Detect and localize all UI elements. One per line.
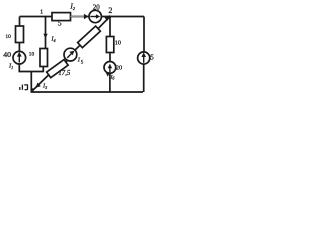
node 4 junction dot — [31, 88, 33, 90]
svg-text:10: 10 — [115, 40, 121, 47]
current source 5 circle (right branch) — [138, 52, 150, 64]
current arrow into node 2 (up-right on diagonal) — [104, 15, 110, 21]
wire left branch down from top-left corner — [19, 17, 21, 27]
wire (light scan) box 5 to I2 arrow — [71, 16, 85, 18]
wire drop from mid wire to bottom-left node 4 — [30, 72, 32, 93]
resistor 5 (top bus) — [52, 13, 71, 21]
wire between resistor and source 20 (node 2 branch) — [109, 53, 111, 62]
wire bottom bus — [31, 91, 144, 93]
node 2 branch wire down — [109, 17, 111, 37]
svg-text:40: 40 — [3, 50, 11, 59]
source 20 circle (top bus) — [89, 10, 101, 22]
svg-text:I6: I6 — [110, 74, 115, 80]
wire upper resistor to node 2 — [98, 17, 110, 29]
wire right branch down from top-right corner — [143, 17, 145, 53]
svg-text:10: 10 — [29, 51, 35, 57]
current arrow I4 (down) — [43, 34, 47, 39]
resistor 17,5 (diagonal, rotated box) — [47, 60, 68, 78]
svg-text:10: 10 — [5, 34, 11, 40]
svg-text:I3: I3 — [42, 82, 47, 89]
svg-text:20: 20 — [116, 64, 122, 71]
node 1 junction wire down (I4 branch) — [45, 17, 47, 49]
wire below I4 resistor — [42, 67, 44, 73]
svg-text:2: 2 — [108, 6, 112, 15]
svg-text:17,5: 17,5 — [58, 70, 70, 77]
resistor 10 (node 2 branch) — [106, 37, 113, 53]
current arrow I3 (down-left on diagonal) — [35, 83, 40, 88]
current source 40 (circle) — [13, 51, 26, 64]
resistor (diagonal upper, rotated box) — [78, 26, 101, 48]
diagonal source circle — [64, 48, 77, 61]
svg-text:1: 1 — [40, 9, 43, 16]
current arrow I2 (right) — [84, 14, 89, 20]
node 4 label — [20, 85, 28, 91]
wire diagonal source to upper resistor — [75, 45, 80, 50]
arrow inside source 5 pointing up — [143, 55, 145, 62]
wire top bus from node A to node 2 to right corner — [20, 16, 145, 18]
arrow inside source 20 pointing right — [90, 16, 96, 18]
svg-text:I4: I4 — [50, 36, 55, 43]
current source 20 circle (node 2 branch) — [104, 62, 116, 74]
wire below source 40 down and corner right — [19, 64, 43, 72]
resistor (I4 branch) — [40, 49, 48, 67]
svg-text:5: 5 — [150, 53, 154, 61]
wire below source down to bottom bus — [109, 73, 111, 92]
svg-text:5: 5 — [58, 19, 62, 27]
wire below source 5 to bottom-right corner — [143, 64, 145, 92]
svg-text:I2: I2 — [69, 2, 75, 11]
diagonal wire node4 to resistor 17,5 — [31, 75, 49, 92]
arrow inside source 40 pointing up — [18, 55, 20, 63]
svg-text:I1: I1 — [8, 62, 13, 69]
wire between left resistor and source 40 — [18, 43, 20, 52]
current arrow I6 (down) — [106, 72, 110, 77]
wire resistor to diagonal source — [66, 60, 67, 62]
resistor 10 (left branch) — [16, 26, 24, 43]
arrow inside source pointing up — [109, 66, 111, 72]
svg-text:5: 5 — [81, 60, 84, 65]
arrow inside diagonal source pointing up-right — [67, 54, 71, 58]
svg-text:20: 20 — [93, 3, 101, 11]
